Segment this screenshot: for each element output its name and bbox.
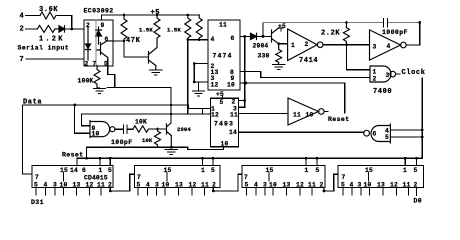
svg-text:D0: D0 bbox=[414, 198, 423, 205]
svg-text:330: 330 bbox=[258, 53, 270, 60]
svg-text:1.5K: 1.5K bbox=[139, 27, 153, 34]
svg-text:2: 2 bbox=[20, 26, 25, 34]
svg-text:2: 2 bbox=[232, 99, 236, 106]
link box3 pin2 to box4 pin7 bbox=[324, 174, 338, 191]
line B to 7493 pin 12 bbox=[82, 113, 203, 115]
svg-text:10: 10 bbox=[221, 140, 229, 147]
7493 ground wire staircase from pin 10 bbox=[171, 147, 223, 150]
svg-text:1000pF: 1000pF bbox=[382, 29, 408, 36]
svg-text:12: 12 bbox=[189, 182, 197, 189]
svg-text:5: 5 bbox=[211, 167, 215, 174]
svg-text:10: 10 bbox=[92, 130, 100, 137]
resistor 1.5K second vertical bbox=[185, 15, 191, 40]
shift register box 3 bbox=[242, 166, 325, 188]
svg-text:13: 13 bbox=[377, 182, 385, 189]
svg-text:7: 7 bbox=[35, 174, 39, 181]
svg-text:2: 2 bbox=[305, 41, 309, 48]
svg-text:7: 7 bbox=[20, 56, 25, 64]
svg-text:12: 12 bbox=[211, 112, 219, 119]
ground under Q2 bbox=[165, 150, 177, 155]
+5 tick above 7493 bbox=[222, 97, 224, 99]
svg-text:1: 1 bbox=[305, 167, 309, 174]
svg-text:5: 5 bbox=[137, 182, 141, 189]
svg-text:5: 5 bbox=[108, 167, 112, 174]
+5 power rail top bbox=[102, 15, 200, 20]
svg-text:2.2K: 2.2K bbox=[321, 30, 340, 38]
svg-text:10: 10 bbox=[306, 112, 314, 119]
svg-text:10: 10 bbox=[60, 182, 68, 189]
link box2 pin2 to box3 pin7 bbox=[213, 174, 242, 191]
vertical from D2 node down bbox=[244, 36, 246, 107]
diode D1 bbox=[55, 26, 65, 32]
resistor third vertical unlabeled bbox=[196, 15, 202, 40]
capacitor 100pF bbox=[124, 125, 128, 134]
svg-text:6: 6 bbox=[231, 35, 235, 42]
inverter 7414 first (1-2) bbox=[288, 29, 318, 61]
svg-text:4: 4 bbox=[146, 182, 150, 189]
ground under Q1 bbox=[150, 70, 162, 75]
resistor 2.2K vertical bbox=[343, 23, 349, 45]
svg-text:2: 2 bbox=[373, 76, 377, 83]
svg-text:13: 13 bbox=[73, 182, 81, 189]
svg-text:2: 2 bbox=[108, 182, 112, 189]
svg-text:7: 7 bbox=[93, 61, 97, 68]
resistor 47K vertical bbox=[121, 15, 127, 41]
inverter 7414 second (3-4) bbox=[370, 30, 401, 60]
svg-text:4: 4 bbox=[44, 182, 48, 189]
node wire to 7474 pin 4 bbox=[188, 39, 208, 41]
svg-text:15: 15 bbox=[365, 167, 373, 174]
svg-text:3: 3 bbox=[263, 182, 267, 189]
ground under 100K bbox=[94, 89, 106, 94]
7474 pin 10 reset wire bbox=[240, 83, 345, 113]
svg-text:2: 2 bbox=[212, 182, 216, 189]
node dot 157,15 bbox=[156, 14, 159, 17]
link box1 pin2 to box2 pin7 bbox=[110, 174, 134, 191]
svg-text:10K: 10K bbox=[142, 137, 153, 144]
svg-text:11: 11 bbox=[201, 182, 209, 189]
junction dot 47K top bbox=[123, 14, 126, 17]
box2 bottom stubs bbox=[138, 188, 205, 196]
svg-text:7: 7 bbox=[137, 174, 141, 181]
svg-text:2: 2 bbox=[320, 182, 324, 189]
wire from node down to clock NAND pin 1 bbox=[346, 45, 370, 70]
svg-text:10K: 10K bbox=[135, 119, 147, 126]
svg-text:6: 6 bbox=[373, 131, 377, 138]
wire 7493 pin 14 to NAND G3 output bbox=[239, 131, 364, 133]
resistor 3.6K bbox=[40, 12, 56, 19]
NAND gate G3 flipped 4,5-6 bbox=[371, 124, 390, 143]
bottom clock rail bbox=[77, 157, 422, 159]
resistor 10K horizontal bbox=[133, 126, 148, 132]
resistor 100K below opto bbox=[94, 66, 100, 89]
svg-text:4: 4 bbox=[254, 182, 258, 189]
svg-text:Reset: Reset bbox=[62, 152, 84, 159]
svg-text:CD4015: CD4015 bbox=[84, 175, 108, 182]
box3 bottom stubs bbox=[247, 188, 313, 196]
svg-text:4: 4 bbox=[211, 36, 215, 43]
transistor Q3 2904 bbox=[272, 28, 284, 44]
7493 pins 2-3 reset tie bracket bbox=[239, 100, 245, 107]
NAND output wire bbox=[115, 128, 124, 130]
opto internal diode to pin 9 bbox=[96, 27, 102, 44]
svg-text:2: 2 bbox=[85, 61, 89, 68]
capacitor 1000pF bbox=[384, 19, 388, 27]
node dots on pin4 wire bbox=[187, 38, 190, 41]
rail stubs down to box pins bbox=[77, 158, 416, 165]
svg-text:+5: +5 bbox=[151, 9, 161, 17]
svg-text:6: 6 bbox=[105, 36, 109, 43]
svg-text:Serial input: Serial input bbox=[18, 45, 70, 52]
svg-text:+5: +5 bbox=[278, 23, 286, 30]
opto internal phototransistor bbox=[96, 41, 113, 60]
reset line to rail bbox=[87, 147, 172, 158]
svg-text:7: 7 bbox=[244, 174, 248, 181]
svg-text:1.2K: 1.2K bbox=[39, 36, 65, 44]
opto internal divider bbox=[95, 20, 97, 66]
7493 pins 1-12 tie bracket bbox=[203, 109, 211, 115]
svg-text:6: 6 bbox=[82, 167, 86, 174]
wire inverter1 out to inverter2 in bbox=[323, 44, 370, 46]
svg-text:EC03092: EC03092 bbox=[84, 8, 114, 15]
svg-text:10: 10 bbox=[364, 182, 372, 189]
svg-text:13: 13 bbox=[283, 182, 291, 189]
svg-text:3: 3 bbox=[53, 182, 57, 189]
pin 4 lead wire bbox=[26, 15, 41, 17]
node junction at 71.8,28.9 bbox=[70, 28, 73, 31]
NAND G3 input wires bbox=[390, 130, 422, 137]
wire diode to opto box bbox=[65, 28, 85, 30]
inverter 7414 third (11-10) bbox=[288, 98, 319, 125]
svg-text:2904: 2904 bbox=[253, 43, 269, 50]
box4 pin2 stub D0 bbox=[416, 188, 418, 196]
svg-text:10: 10 bbox=[162, 182, 170, 189]
wire opto pin 6 to 47K node bbox=[113, 40, 124, 42]
data line horizontal bbox=[23, 105, 211, 109]
+5 tick at Q3 collector bbox=[280, 30, 282, 32]
svg-text:3: 3 bbox=[386, 72, 390, 79]
svg-text:3: 3 bbox=[358, 182, 362, 189]
7474 D-input tie vertical bbox=[194, 64, 208, 83]
svg-text:3: 3 bbox=[155, 182, 159, 189]
rail junction dots bbox=[85, 157, 88, 160]
svg-text:5: 5 bbox=[385, 134, 389, 141]
svg-text:7493: 7493 bbox=[214, 121, 234, 128]
vertical through data/lineB to Q2 collector bbox=[170, 88, 172, 123]
svg-text:11: 11 bbox=[230, 112, 238, 119]
resistor 1.5K first vertical bbox=[154, 15, 160, 41]
wire 47K node down and to Q1 base bbox=[124, 41, 149, 57]
svg-text:2: 2 bbox=[414, 182, 418, 189]
box1 bottom stubs bbox=[36, 188, 101, 196]
svg-text:5: 5 bbox=[316, 167, 320, 174]
wire from 3.6K to line 2 corner bbox=[56, 16, 72, 29]
svg-text:5: 5 bbox=[341, 182, 345, 189]
box4 pin15 leader bbox=[368, 173, 370, 182]
svg-text:15: 15 bbox=[266, 167, 274, 174]
svg-text:4: 4 bbox=[387, 43, 391, 50]
svg-text:15: 15 bbox=[164, 167, 172, 174]
svg-text:100pF: 100pF bbox=[111, 139, 133, 146]
svg-text:11: 11 bbox=[308, 182, 316, 189]
wire clock NAND out bbox=[396, 73, 400, 75]
vertical from base node up to feedback rail bbox=[262, 23, 264, 37]
wire Q3 emitter to inverter input bbox=[279, 43, 288, 45]
svg-text:11: 11 bbox=[293, 112, 301, 119]
svg-text:12: 12 bbox=[296, 182, 304, 189]
svg-text:7400: 7400 bbox=[373, 88, 392, 96]
data line junction dots bbox=[73, 104, 76, 107]
svg-text:5: 5 bbox=[414, 167, 418, 174]
svg-text:5: 5 bbox=[245, 182, 249, 189]
svg-text:11: 11 bbox=[219, 22, 227, 29]
wire 7474 pin 8 to clock NAND pin 2 bbox=[240, 72, 370, 78]
clock vertical down to shift rail bbox=[421, 78, 423, 158]
data line vertical to shift register pin 7 bbox=[23, 105, 33, 174]
wire inverter3 out to Reset label bbox=[324, 111, 328, 113]
svg-text:14: 14 bbox=[70, 167, 78, 174]
svg-text:1: 1 bbox=[291, 42, 295, 49]
feedback rail top with 1000pF gap bbox=[263, 22, 420, 24]
svg-text:Clock: Clock bbox=[402, 69, 426, 77]
svg-text:15: 15 bbox=[60, 167, 68, 174]
vertical from node to 7474 lower pins bbox=[187, 40, 189, 114]
pin 2 lead wire bbox=[26, 28, 38, 30]
svg-text:3: 3 bbox=[373, 44, 377, 51]
svg-text:1: 1 bbox=[99, 167, 103, 174]
shift register box 4 bbox=[338, 166, 424, 188]
+5 tick bbox=[156, 13, 158, 15]
svg-text:13: 13 bbox=[175, 182, 183, 189]
svg-text:1: 1 bbox=[403, 167, 407, 174]
svg-text:7474: 7474 bbox=[213, 53, 233, 60]
IC 7493 box bbox=[211, 98, 239, 147]
opto-isolator EC03092 box bbox=[84, 20, 113, 66]
svg-text:11: 11 bbox=[403, 182, 411, 189]
NAND input wire pin 10 from data line bbox=[75, 105, 90, 133]
svg-text:47K: 47K bbox=[126, 37, 141, 45]
transistor Q2 2904 bbox=[167, 123, 172, 147]
svg-text:10: 10 bbox=[227, 82, 235, 89]
svg-text:4: 4 bbox=[20, 13, 25, 21]
resistor 10M vertical bbox=[155, 129, 172, 147]
svg-text:100K: 100K bbox=[78, 78, 94, 85]
svg-text:9: 9 bbox=[101, 22, 105, 29]
svg-text:11: 11 bbox=[97, 182, 105, 189]
wire D2 to Q3 base bbox=[257, 35, 272, 37]
node dot 124,40.9 bbox=[123, 40, 126, 43]
svg-text:3.6K: 3.6K bbox=[39, 6, 58, 14]
ground stem near 7474 bbox=[198, 82, 200, 91]
svg-text:Reset: Reset bbox=[328, 116, 350, 123]
wire cap to 10K bbox=[127, 128, 133, 130]
svg-text:2904: 2904 bbox=[177, 126, 191, 133]
opto internal LED bbox=[86, 28, 91, 61]
node dot 187.8,15 bbox=[187, 14, 190, 17]
shift register CD4015 box 1 bbox=[32, 166, 113, 188]
resistor 330 vertical bbox=[276, 44, 282, 64]
wire inverter2 out to corner bbox=[406, 44, 420, 46]
wire 7493 pin 11 to inverter3 input bbox=[239, 113, 289, 115]
svg-text:D31: D31 bbox=[31, 199, 44, 206]
diode D2 bbox=[251, 33, 257, 39]
svg-text:7: 7 bbox=[342, 174, 346, 181]
svg-text:+5: +5 bbox=[216, 91, 224, 98]
svg-text:14: 14 bbox=[229, 129, 237, 136]
IC 7474 box bbox=[208, 20, 240, 90]
junction dot at feedback corner bbox=[418, 21, 421, 24]
transistor Q1 bbox=[149, 41, 158, 70]
svg-text:4: 4 bbox=[350, 182, 354, 189]
wire opto pin 5 down right and down to data area bbox=[107, 60, 171, 88]
wire 10K to Q2 base bbox=[149, 128, 167, 130]
NAND gate 9,10 bbox=[90, 121, 110, 138]
svg-text:2: 2 bbox=[86, 22, 90, 29]
junction dot reset tie bbox=[243, 99, 246, 102]
svg-text:1: 1 bbox=[373, 69, 377, 76]
box4 bottom stubs bbox=[343, 188, 409, 196]
svg-text:1: 1 bbox=[201, 167, 205, 174]
svg-text:12: 12 bbox=[86, 182, 94, 189]
svg-text:5: 5 bbox=[34, 182, 38, 189]
box2 pin15 leader bbox=[166, 173, 168, 182]
7474 pin 6 wire to diode D2 bbox=[240, 35, 251, 37]
pin 7 lead wire bbox=[26, 58, 84, 60]
resistor 1.2K bbox=[37, 25, 55, 32]
svg-text:12: 12 bbox=[211, 82, 219, 89]
ground under 7474 left bbox=[193, 91, 205, 96]
svg-text:7414: 7414 bbox=[299, 57, 318, 65]
NAND input wire pin 9 bbox=[82, 114, 91, 126]
svg-text:Data: Data bbox=[23, 99, 42, 107]
svg-text:1.5K: 1.5K bbox=[167, 27, 181, 34]
box3 pin15 leader bbox=[268, 173, 270, 182]
svg-text:12: 12 bbox=[390, 182, 398, 189]
svg-text:5: 5 bbox=[220, 99, 224, 106]
ground under 330 bbox=[273, 65, 285, 70]
svg-text:5: 5 bbox=[104, 61, 108, 68]
shift register box 2 bbox=[135, 166, 221, 188]
NAND gate clock 1,2 7400 bbox=[370, 66, 391, 82]
box1 pin15 leader bbox=[63, 173, 65, 182]
svg-text:10: 10 bbox=[269, 182, 277, 189]
